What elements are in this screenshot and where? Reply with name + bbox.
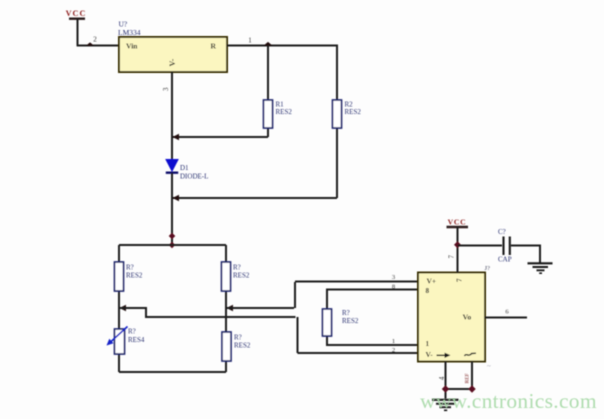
resistor R2 body bbox=[333, 100, 342, 128]
capacitor C? plate right bbox=[509, 237, 511, 256]
resistor bridge lower-right body bbox=[222, 332, 231, 361]
svg-text:1: 1 bbox=[426, 340, 430, 348]
svg-text:R?: R? bbox=[128, 328, 136, 336]
svg-text:1: 1 bbox=[248, 37, 252, 45]
junction arrow bridge right node bbox=[227, 305, 234, 311]
svg-text:V-: V- bbox=[426, 350, 434, 359]
svg-text:RES2: RES2 bbox=[345, 108, 362, 116]
wire dropper to pin 2 of amp bbox=[297, 317, 299, 353]
svg-text:Vo: Vo bbox=[463, 313, 472, 322]
junction dot bottom-left pin bbox=[442, 385, 449, 393]
svg-text:V+: V+ bbox=[427, 277, 437, 286]
svg-text:www.cntronics.com: www.cntronics.com bbox=[420, 389, 597, 413]
svg-text:6: 6 bbox=[505, 309, 509, 316]
wire R1 bottom horizontal bbox=[172, 136, 268, 138]
junction dot at VCC cap branch bbox=[454, 241, 461, 248]
wire amp pin 2 horizontal bbox=[298, 352, 419, 354]
wire amp pin 8 loop bbox=[327, 290, 418, 310]
wire VCC drop to pin 2 bbox=[77, 19, 79, 46]
ground symbol top-right nub bbox=[539, 272, 542, 274]
ground symbol bottom bar2 bbox=[436, 403, 455, 405]
svg-text:C?: C? bbox=[498, 228, 506, 236]
ground symbol top-right bar3 bbox=[537, 269, 545, 271]
ground symbol bottom nub bbox=[444, 409, 447, 411]
wire joining bottom pins bbox=[446, 388, 473, 390]
wire bridge right vertical bbox=[225, 245, 227, 372]
svg-text:REF: REF bbox=[465, 373, 471, 383]
svg-text:~: ~ bbox=[487, 363, 491, 371]
wire VCC to capacitor bbox=[458, 245, 503, 247]
ground symbol top-right bar1 bbox=[528, 262, 553, 264]
wire diode to bridge vertical bbox=[171, 173, 173, 245]
wire jog from left node bbox=[119, 308, 296, 317]
potentiometer wiper arrowhead bbox=[107, 339, 114, 346]
wire output pin 6 bbox=[485, 317, 527, 319]
resistor R1 body bbox=[264, 100, 273, 128]
wire capacitor to ground bbox=[511, 246, 540, 263]
junction arrow bridge left node bbox=[120, 305, 127, 311]
wire R1 branch lower bbox=[267, 128, 269, 137]
svg-text:2: 2 bbox=[392, 347, 395, 354]
wire amp pin 3 horizontal bbox=[295, 281, 418, 283]
svg-text:J?: J? bbox=[485, 265, 491, 272]
wire pin 2 horizontal bbox=[77, 45, 119, 47]
svg-text:R?: R? bbox=[342, 309, 350, 317]
diode D1 triangle bbox=[166, 160, 178, 172]
squiggle pin 5 mark inside amp bbox=[465, 353, 477, 356]
svg-text:R?: R? bbox=[126, 264, 134, 272]
junction dot upper bbox=[169, 233, 176, 240]
potentiometer R? RES4 body bbox=[115, 329, 125, 354]
svg-text:VCC: VCC bbox=[448, 218, 467, 227]
resistor bridge upper-left body bbox=[115, 262, 124, 291]
resistor bridge upper-right body bbox=[222, 262, 231, 291]
junction at R1 branch bbox=[264, 42, 273, 46]
wire riser to pin 3 of amp bbox=[294, 282, 296, 308]
svg-text:1: 1 bbox=[392, 338, 395, 345]
svg-text:LM334: LM334 bbox=[118, 28, 141, 37]
wire R2 bottom horizontal bbox=[172, 197, 337, 199]
reference arrow inside amp bbox=[437, 354, 447, 356]
svg-text:R?: R? bbox=[233, 264, 241, 272]
junction dot bottom-right pin bbox=[468, 385, 475, 393]
wire R1 branch upper bbox=[267, 46, 269, 101]
reference arrowhead inside amp bbox=[445, 353, 451, 358]
svg-text:RES4: RES4 bbox=[128, 336, 145, 344]
capacitor C? plate left bbox=[502, 237, 504, 256]
wire pin 1 horizontal bbox=[227, 45, 338, 47]
ground symbol top-right bar2 bbox=[533, 266, 549, 268]
wire R2 branch lower bbox=[336, 128, 338, 198]
svg-text:DIODE-L: DIODE-L bbox=[180, 173, 208, 181]
svg-text:CAP: CAP bbox=[498, 256, 512, 264]
power VCC amp bar symbol bbox=[447, 226, 469, 228]
wire bridge left vertical bbox=[118, 245, 120, 372]
diode D1 cathode bar bbox=[166, 171, 178, 173]
svg-text:8: 8 bbox=[426, 287, 430, 295]
svg-text:RES2: RES2 bbox=[233, 272, 250, 280]
junction arrow at R1 bottom bbox=[173, 134, 180, 140]
svg-text:2: 2 bbox=[93, 36, 97, 44]
ground symbol bottom bar3 bbox=[440, 406, 452, 408]
svg-text:RES2: RES2 bbox=[126, 272, 143, 280]
wire amp pin 1 loop bbox=[327, 336, 418, 345]
op-amp U? LM334 body bbox=[119, 37, 227, 72]
svg-text:7: 7 bbox=[448, 255, 456, 259]
wire bridge bottom horizontal bbox=[119, 371, 226, 373]
svg-text:RES2: RES2 bbox=[234, 342, 251, 350]
wire amp pin 5 down bbox=[471, 362, 473, 390]
svg-text:4: 4 bbox=[439, 376, 446, 380]
power VCC top-left bar symbol bbox=[69, 18, 85, 20]
svg-text:R: R bbox=[211, 42, 217, 51]
svg-text:R?: R? bbox=[234, 334, 242, 342]
potentiometer wiper arrow bbox=[110, 327, 128, 343]
wire amp pin 4 down bbox=[445, 362, 447, 399]
svg-text:Vin: Vin bbox=[126, 42, 138, 51]
junction arrow at R2 bottom bbox=[173, 195, 180, 201]
ground symbol bottom bar1 bbox=[432, 399, 459, 401]
svg-text:RES2: RES2 bbox=[276, 108, 293, 116]
svg-text:3: 3 bbox=[162, 87, 170, 91]
wire VCC to amp pin 7 bbox=[457, 227, 459, 273]
wire pin 3 vertical bbox=[171, 72, 173, 160]
svg-text:VCC: VCC bbox=[66, 9, 87, 18]
svg-text:V-: V- bbox=[168, 58, 177, 66]
svg-text:7: 7 bbox=[456, 278, 464, 282]
svg-text:3: 3 bbox=[392, 274, 396, 281]
wire right node to amp column bbox=[226, 307, 294, 309]
instrumentation amp body bbox=[418, 273, 485, 362]
junction bump near pin 2 bbox=[86, 42, 94, 45]
resistor gain R? body bbox=[323, 309, 332, 336]
junction dot bridge top bbox=[169, 242, 176, 249]
wire bridge top horizontal bbox=[119, 244, 226, 246]
svg-text:D1: D1 bbox=[180, 164, 189, 172]
wire R2 branch upper bbox=[336, 46, 338, 101]
svg-text:RES2: RES2 bbox=[342, 317, 359, 325]
